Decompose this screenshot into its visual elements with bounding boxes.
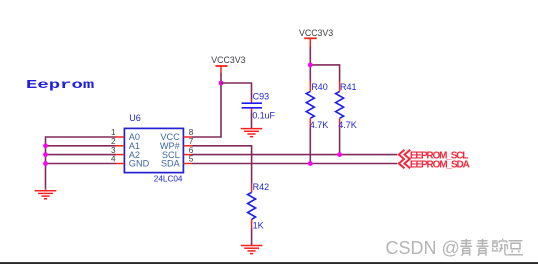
watermark CJK qing1 xyxy=(460,239,472,256)
svg-text:1: 1 xyxy=(111,128,116,137)
watermark CJK qing2 xyxy=(477,239,489,256)
svg-text:1K: 1K xyxy=(253,220,264,230)
wire pin2 row xyxy=(46,145,117,147)
ground C93 xyxy=(241,129,263,137)
pin 4 stub xyxy=(115,163,124,165)
junction bus-pin4 xyxy=(43,161,48,166)
resistor R40 bottom stub xyxy=(309,118,311,127)
svg-text:VCC3V3: VCC3V3 xyxy=(211,55,245,65)
junction VCC-C93 branch xyxy=(219,81,224,86)
svg-text:R41: R41 xyxy=(340,82,357,92)
power VCC3V3 left stub xyxy=(220,67,222,74)
resistor R42 bottom stub xyxy=(251,219,253,228)
svg-text:4: 4 xyxy=(111,155,116,164)
port EEPROM_SDA chevrons xyxy=(399,159,410,169)
svg-text:R40: R40 xyxy=(311,82,328,92)
capacitor C93 plates xyxy=(242,103,262,108)
svg-text:2: 2 xyxy=(111,137,116,146)
svg-text:EEPROM_SDA: EEPROM_SDA xyxy=(410,160,470,171)
svg-text:6: 6 xyxy=(189,146,194,155)
bottom border line xyxy=(0,262,538,264)
resistor R41 bottom stub xyxy=(339,118,341,127)
wire pin8 to VCC3V3 xyxy=(192,73,221,137)
power VCC3V3 top stub xyxy=(309,39,311,47)
pin 3 stub xyxy=(115,154,124,156)
svg-text:SDA: SDA xyxy=(161,159,181,169)
port EEPROM_SCL chevrons xyxy=(399,150,410,160)
svg-text:5: 5 xyxy=(189,155,194,164)
junction R41-SCL xyxy=(337,152,342,157)
wire left bus + pin1 row xyxy=(46,137,117,190)
svg-text:3: 3 xyxy=(111,146,116,155)
svg-text:0.1uF: 0.1uF xyxy=(252,111,275,121)
resistor R42 zigzag xyxy=(248,192,256,219)
junction VCC-R40-R41 xyxy=(308,63,313,68)
wire R40 to SDA xyxy=(309,127,311,163)
svg-text:R42: R42 xyxy=(253,182,270,192)
wire branch to C93 xyxy=(221,83,252,100)
resistor R40 zigzag xyxy=(306,91,314,118)
pin 5 stub xyxy=(184,163,193,165)
wire VCC3V3 down to R40 xyxy=(309,47,311,82)
wire branch to R41 xyxy=(310,65,339,82)
pin 2 stub xyxy=(115,145,124,147)
svg-text:C93: C93 xyxy=(253,91,270,101)
pin 6 stub xyxy=(184,154,193,156)
svg-text:4.7K: 4.7K xyxy=(338,120,357,130)
wire R41 to SCL xyxy=(339,127,341,154)
IC U6 24LC04 body rectangle xyxy=(124,128,183,172)
svg-text:U6: U6 xyxy=(129,113,141,123)
svg-text:7: 7 xyxy=(189,137,194,146)
svg-text:Eeprom: Eeprom xyxy=(26,78,94,92)
ground left xyxy=(35,191,57,199)
junction R40-SDA xyxy=(308,161,313,166)
svg-text:VCC3V3: VCC3V3 xyxy=(299,28,333,38)
wire SDA row xyxy=(192,163,397,165)
svg-text:GND: GND xyxy=(129,159,150,169)
watermark CJK dou xyxy=(508,241,523,255)
resistor R40 top stub xyxy=(309,82,311,92)
wire pin3 row xyxy=(46,154,117,156)
svg-text:24LC04: 24LC04 xyxy=(154,174,183,183)
watermark CJK wan xyxy=(492,239,508,255)
power VCC3V3 left bar xyxy=(215,65,227,67)
resistor R42 top stub xyxy=(251,184,253,193)
wire C93 to ground xyxy=(251,111,253,128)
svg-text:4.7K: 4.7K xyxy=(310,120,329,130)
svg-text:8: 8 xyxy=(189,128,194,137)
capacitor C93 bottom stub xyxy=(251,108,253,111)
resistor R41 top stub xyxy=(339,82,341,92)
junction bus-pin3 xyxy=(43,152,48,157)
junction bus-pin2 xyxy=(43,143,48,148)
pin 7 stub xyxy=(184,145,193,147)
power VCC3V3 top bar xyxy=(304,37,317,39)
capacitor C93 top stub xyxy=(251,99,253,102)
svg-text:CSDN @: CSDN @ xyxy=(386,238,460,258)
wire pin4 row xyxy=(46,163,117,165)
wire SCL row xyxy=(192,154,397,156)
pin 8 stub xyxy=(184,136,193,138)
resistor R41 zigzag xyxy=(336,91,344,118)
pin 1 stub xyxy=(115,136,124,138)
ground R42 xyxy=(241,246,263,254)
wire pin7 WP# to R42 xyxy=(192,146,252,184)
wire R42 to ground xyxy=(251,228,253,245)
